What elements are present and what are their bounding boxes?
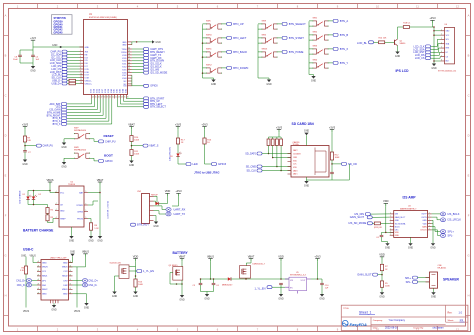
svg-text:100K: 100K xyxy=(134,140,139,142)
pin 2 xyxy=(426,281,430,283)
svg-text:LED: LED xyxy=(193,162,198,166)
svg-text:GND: GND xyxy=(204,297,210,300)
wire xyxy=(32,57,34,63)
wire xyxy=(203,23,207,25)
svg-text:SI-2301CDS: SI-2301CDS xyxy=(110,263,122,265)
svg-text:SPX3819M5-L-3-3: SPX3819M5-L-3-3 xyxy=(290,275,306,277)
svg-text:4: 4 xyxy=(441,42,442,44)
wire xyxy=(93,99,95,107)
svg-text:I2S_LRCLK: I2S_LRCLK xyxy=(448,218,462,222)
svg-text:2: 2 xyxy=(441,34,442,36)
svg-text:SPL-: SPL- xyxy=(406,280,412,284)
ground xyxy=(380,292,384,295)
svg-text:BTN_DOWN: BTN_DOWN xyxy=(233,66,248,70)
node SPL- xyxy=(413,280,418,283)
svg-text:17: 17 xyxy=(101,97,103,99)
svg-text:BTN_BACK: BTN_BACK xyxy=(233,50,247,54)
pin VCC xyxy=(55,192,59,194)
node SD_CLK xyxy=(257,169,262,172)
svg-text:B: B xyxy=(5,54,7,58)
svg-text:GND: GND xyxy=(395,220,400,222)
svg-text:BTN_LEFT: BTN_LEFT xyxy=(233,36,247,40)
svg-text:4: 4 xyxy=(80,56,81,58)
wire xyxy=(67,83,69,85)
svg-text:B: B xyxy=(70,279,71,281)
pin VDD xyxy=(390,231,394,233)
svg-text:TF-01A: TF-01A xyxy=(293,143,300,146)
node BTN_DOWN xyxy=(144,59,149,62)
svg-text:GND: GND xyxy=(395,55,401,58)
svg-text:GPIO45: GPIO45 xyxy=(54,31,64,34)
svg-text:CN1_D-: CN1_D- xyxy=(17,284,26,287)
wire xyxy=(309,67,313,69)
wire xyxy=(433,288,435,292)
svg-text:BTN_HOME: BTN_HOME xyxy=(289,50,304,54)
svg-text:24: 24 xyxy=(128,65,130,67)
wire xyxy=(222,51,227,53)
svg-text:VDD: VDD xyxy=(165,189,171,193)
wire xyxy=(309,20,313,22)
resistor R2 xyxy=(46,208,49,214)
wire xyxy=(72,256,74,262)
wire xyxy=(434,34,441,36)
wire xyxy=(67,71,80,73)
wire xyxy=(433,62,435,64)
node I_YL_EN xyxy=(267,286,272,289)
ground xyxy=(304,181,308,184)
svg-text:100K: 100K xyxy=(335,157,340,159)
svg-text:IO39: IO39 xyxy=(122,58,126,60)
svg-text:E: E xyxy=(468,174,470,178)
svg-text:D1: D1 xyxy=(23,194,25,196)
wire xyxy=(431,54,440,56)
svg-text:GND: GND xyxy=(52,44,58,47)
pin 4 xyxy=(150,210,154,212)
node GPIO0 xyxy=(99,159,104,162)
pin IO15 xyxy=(80,68,84,70)
ground xyxy=(431,243,435,246)
ground xyxy=(385,243,389,246)
pin CHRG xyxy=(84,211,88,213)
wire xyxy=(268,78,270,80)
wire xyxy=(321,285,323,294)
wire xyxy=(76,80,80,82)
svg-text:2: 2 xyxy=(390,234,391,236)
svg-text:15: 15 xyxy=(95,97,97,99)
svg-text:8: 8 xyxy=(441,60,442,62)
svg-text:7: 7 xyxy=(429,225,430,227)
node LCD_CLK xyxy=(426,45,431,48)
wire xyxy=(115,275,120,277)
wire xyxy=(222,23,227,25)
wire xyxy=(99,99,101,113)
resistor R15 xyxy=(374,222,380,225)
svg-text:VBAT: VBAT xyxy=(97,178,104,182)
LED D3 xyxy=(176,154,179,157)
switch SW8 BOOT xyxy=(74,152,78,154)
pin VIN xyxy=(285,278,289,280)
svg-text:12: 12 xyxy=(80,79,82,81)
node LCD_BL xyxy=(62,73,67,76)
svg-text:SW13: SW13 xyxy=(262,49,269,51)
transistor Q1 xyxy=(394,40,396,45)
pin SCL xyxy=(441,38,445,40)
node UART_RTS xyxy=(144,48,149,51)
wire xyxy=(90,230,92,236)
node CN1_D+ xyxy=(82,279,87,283)
pin GND2 right xyxy=(128,44,132,46)
switch SW10 xyxy=(206,37,210,39)
svg-text:25: 25 xyxy=(124,97,126,99)
resistor R6 xyxy=(24,266,27,274)
wire xyxy=(280,137,282,139)
svg-text:+3V3: +3V3 xyxy=(276,125,283,129)
wire xyxy=(71,227,73,236)
svg-text:GND: GND xyxy=(319,297,325,300)
wire xyxy=(135,261,137,266)
resistor R4 xyxy=(89,223,92,230)
wire xyxy=(67,80,69,82)
capacitor C10 xyxy=(320,282,324,284)
svg-text:VDD: VDD xyxy=(383,199,389,203)
wire xyxy=(268,137,270,139)
wire xyxy=(397,46,399,52)
svg-text:IO36: IO36 xyxy=(99,89,101,93)
node SPL- xyxy=(440,234,445,238)
pin DC xyxy=(441,51,445,53)
svg-text:+3V3: +3V3 xyxy=(314,254,321,258)
pin SBU2 xyxy=(37,288,41,290)
wire xyxy=(132,145,144,147)
node LCD_BL xyxy=(369,41,374,44)
wire xyxy=(258,77,269,79)
pin GAIN xyxy=(428,226,432,228)
svg-text:GND: GND xyxy=(304,184,310,187)
svg-text:CD/DAT3: CD/DAT3 xyxy=(293,153,301,156)
pin SD_MODEA xyxy=(390,223,394,225)
pin bottom 11 xyxy=(120,95,122,99)
svg-text:I2S_SD_MODE: I2S_SD_MODE xyxy=(349,221,367,225)
svg-text:IO45: IO45 xyxy=(125,89,127,93)
svg-text:7: 7 xyxy=(429,219,430,221)
svg-text:VBUS: VBUS xyxy=(42,267,48,269)
connector CN6 speaker xyxy=(430,272,438,288)
pin OUTN xyxy=(428,216,432,218)
svg-text:D: D xyxy=(468,134,470,138)
wire xyxy=(154,200,156,202)
node BTN_READY xyxy=(144,50,149,53)
svg-text:I2S AMP: I2S AMP xyxy=(403,196,417,200)
svg-text:G: G xyxy=(4,254,6,258)
svg-text:5: 5 xyxy=(85,217,86,219)
svg-text:100K: 100K xyxy=(138,284,143,286)
wire xyxy=(27,191,29,197)
svg-text:Sheet_1: Sheet_1 xyxy=(359,310,371,314)
svg-text:5: 5 xyxy=(80,59,81,61)
svg-text:16: 16 xyxy=(98,97,100,99)
node I2S_WS xyxy=(144,68,149,71)
svg-text:IO17: IO17 xyxy=(85,75,89,77)
svg-text:SD CARD 1Bit: SD CARD 1Bit xyxy=(292,122,315,126)
note box STRIP PIN xyxy=(52,15,73,35)
svg-text:GND: GND xyxy=(179,298,185,301)
wire xyxy=(120,99,122,105)
IC U4 MAX98357 box xyxy=(394,211,428,238)
svg-text:D: D xyxy=(5,134,7,138)
wire xyxy=(204,144,206,164)
node LCD_RS xyxy=(426,54,431,57)
svg-text:VBUS: VBUS xyxy=(62,267,68,269)
svg-text:I2S_BCLK: I2S_BCLK xyxy=(448,212,460,216)
wire xyxy=(418,277,430,279)
wire xyxy=(170,283,182,285)
svg-text:R14 10K: R14 10K xyxy=(379,38,387,40)
connector U6 IPS LCD xyxy=(445,27,455,64)
title block xyxy=(341,305,468,330)
ground xyxy=(69,236,73,239)
svg-text:1_YL_EN: 1_YL_EN xyxy=(143,269,154,273)
wire xyxy=(374,41,379,43)
pin EN xyxy=(285,286,289,288)
svg-text:CN1_D-: CN1_D- xyxy=(88,284,97,287)
node CN1_D- xyxy=(26,283,31,287)
wire xyxy=(329,34,334,36)
pin GND xyxy=(37,262,41,264)
resistor R22 xyxy=(275,139,278,146)
node SD_DAT0 xyxy=(257,152,262,155)
svg-text:GND: GND xyxy=(85,47,90,49)
capacitor C7 xyxy=(23,150,27,152)
node BTN_UP xyxy=(227,22,232,25)
node UART_TX xyxy=(166,212,171,216)
svg-text:H: H xyxy=(468,294,470,298)
svg-text:+3V3: +3V3 xyxy=(329,125,336,129)
svg-text:BTN_A: BTN_A xyxy=(340,19,349,23)
svg-text:R18 5.1: R18 5.1 xyxy=(403,23,411,25)
node None xyxy=(144,103,149,106)
capacitor C2 xyxy=(279,282,283,284)
wire xyxy=(135,267,137,277)
wire xyxy=(381,260,383,265)
node BTN_SELECT xyxy=(282,22,287,25)
pin GND xyxy=(69,262,73,264)
svg-text:GND: GND xyxy=(61,165,67,168)
IC Q3 box xyxy=(119,265,129,279)
svg-text:SBU2: SBU2 xyxy=(42,289,48,291)
svg-text:USB1 TYPE-C-16P: USB1 TYPE-C-16P xyxy=(50,258,67,260)
svg-text:+3V3: +3V3 xyxy=(429,16,436,20)
wire xyxy=(203,51,207,53)
svg-text:8: 8 xyxy=(80,68,81,70)
svg-text:GND: GND xyxy=(395,235,400,237)
node GPIO0 xyxy=(144,84,149,87)
svg-text:UART_RX: UART_RX xyxy=(174,207,186,211)
wire xyxy=(132,66,144,68)
svg-text:VBUS: VBUS xyxy=(82,250,89,254)
wire xyxy=(105,99,107,119)
wire column3 rail xyxy=(308,21,310,74)
pin USB_D+ xyxy=(80,83,84,85)
svg-text:VBUS: VBUS xyxy=(62,289,68,291)
resistor R12 xyxy=(330,152,333,160)
wire xyxy=(73,293,87,295)
svg-text:DAT2: DAT2 xyxy=(293,149,297,152)
svg-text:BTN_X: BTN_X xyxy=(53,123,61,126)
svg-text:IO33: IO33 xyxy=(91,89,93,93)
resistor R14 xyxy=(379,41,385,44)
node LCD_RST xyxy=(426,51,431,54)
capacitor C3 xyxy=(199,282,203,284)
svg-text:IO38: IO38 xyxy=(105,89,107,93)
svg-text:GND: GND xyxy=(42,262,47,264)
wire xyxy=(307,179,350,181)
switch SW9 xyxy=(262,23,266,25)
pin bottom 5 xyxy=(102,95,104,99)
svg-text:3V3: 3V3 xyxy=(85,52,88,54)
svg-text:CN1_D+: CN1_D+ xyxy=(88,279,98,282)
svg-text:(R15) 0R: (R15) 0R xyxy=(374,227,382,229)
pin GND left xyxy=(80,46,84,48)
pin DP2 xyxy=(69,280,73,282)
wire xyxy=(370,213,389,215)
svg-text:RXD0: RXD0 xyxy=(121,52,126,54)
wire xyxy=(73,280,83,282)
wire xyxy=(222,67,227,69)
node I2S_SD_MODE xyxy=(144,71,149,74)
wire xyxy=(132,51,144,53)
wire xyxy=(280,146,282,171)
svg-text:1_YL_EN: 1_YL_EN xyxy=(255,287,266,291)
svg-text:7: 7 xyxy=(429,229,430,231)
wire xyxy=(132,48,144,50)
svg-text:2: 2 xyxy=(80,50,81,52)
svg-text:GND: GND xyxy=(63,294,68,296)
node I2C_SCL xyxy=(62,56,67,59)
wire xyxy=(117,99,119,107)
wire xyxy=(381,237,383,242)
svg-text:TEMP: TEMP xyxy=(60,218,66,220)
pin VDD xyxy=(428,223,432,225)
wire xyxy=(311,278,323,280)
wire xyxy=(321,279,323,283)
svg-text:IO4: IO4 xyxy=(85,57,88,59)
pin BCLK xyxy=(390,226,394,228)
svg-text:B: B xyxy=(70,270,71,272)
pin 1 xyxy=(150,195,154,197)
wire xyxy=(47,214,49,215)
wire VDD rail xyxy=(385,206,387,232)
capacitor C4 xyxy=(212,282,216,284)
svg-text:IO34: IO34 xyxy=(93,89,95,93)
pin GPIO0 right xyxy=(128,85,132,87)
svg-text:GND: GND xyxy=(69,239,75,242)
ground xyxy=(211,80,215,83)
wire xyxy=(431,51,439,53)
pin right 5 xyxy=(128,54,132,56)
node BTN_HOME xyxy=(62,111,67,114)
svg-text:S8050: S8050 xyxy=(400,43,407,45)
wire xyxy=(431,57,441,59)
wire xyxy=(262,170,291,172)
pin right 11 xyxy=(128,72,132,74)
svg-text:B: B xyxy=(70,261,71,263)
svg-text:5: 5 xyxy=(85,204,86,206)
card internal lines xyxy=(314,148,316,176)
wire xyxy=(331,174,333,180)
svg-text:IO42: IO42 xyxy=(122,67,126,69)
svg-text:I2S_SD_MODE: I2S_SD_MODE xyxy=(150,72,167,75)
pin bottom 2 xyxy=(93,95,95,99)
svg-text:10uF: 10uF xyxy=(13,59,18,61)
svg-text:4: 4 xyxy=(56,217,57,219)
wire xyxy=(67,68,80,70)
wire xyxy=(91,99,93,104)
svg-text:SPL+: SPL+ xyxy=(405,276,412,280)
wire xyxy=(309,48,313,50)
svg-text:IO16: IO16 xyxy=(85,72,89,74)
node LED xyxy=(62,105,67,108)
pin USB_D- xyxy=(80,80,84,82)
capacitor C4 xyxy=(380,234,384,236)
pin VBUS xyxy=(69,288,73,290)
svg-text:100K: 100K xyxy=(134,154,139,156)
svg-text:GAIN_SLOT: GAIN_SLOT xyxy=(350,215,365,219)
pin EN xyxy=(80,54,84,56)
mosfet Q3 xyxy=(122,268,124,274)
node BTN_B xyxy=(333,33,338,36)
wire xyxy=(88,204,93,206)
pin bottom 10 xyxy=(117,95,119,99)
wire xyxy=(278,37,283,39)
ground xyxy=(180,295,184,298)
node I2S_BCLK xyxy=(144,65,149,68)
svg-text:CHIP_PU: CHIP_PU xyxy=(43,145,54,148)
wire xyxy=(102,99,104,116)
wire xyxy=(306,177,308,181)
svg-text:5: 5 xyxy=(85,210,86,212)
border tick marks xyxy=(37,3,39,8)
pin SBU1 xyxy=(37,275,41,277)
svg-text:D2: D2 xyxy=(39,194,41,196)
svg-text:VBUS: VBUS xyxy=(74,311,81,313)
wire xyxy=(331,160,333,172)
svg-text:GND: GND xyxy=(88,239,94,242)
pin CC2 xyxy=(69,270,73,272)
pin right 4 xyxy=(128,51,132,53)
wire pullup rail xyxy=(269,136,282,138)
wire xyxy=(258,23,262,25)
node BTN_A xyxy=(333,19,338,22)
svg-text:GND: GND xyxy=(385,247,391,250)
wire xyxy=(63,158,65,162)
svg-text:BOOT: BOOT xyxy=(104,154,113,158)
svg-text:GND: GND xyxy=(63,262,68,264)
svg-text:GND: GND xyxy=(122,42,127,44)
wire xyxy=(67,65,80,67)
svg-text:DAT0: DAT0 xyxy=(293,169,297,172)
svg-text:7: 7 xyxy=(429,213,430,215)
svg-text:IO6: IO6 xyxy=(85,63,88,65)
svg-text:10K: 10K xyxy=(27,140,31,142)
svg-text:IO47: IO47 xyxy=(122,75,126,77)
svg-text:BCLK: BCLK xyxy=(395,227,401,229)
wire xyxy=(25,274,27,308)
svg-text:14: 14 xyxy=(92,97,94,99)
switch SW5 xyxy=(262,37,266,39)
node BTN_B xyxy=(62,117,67,120)
node LCD_CLK xyxy=(62,59,67,62)
ground xyxy=(23,160,27,163)
